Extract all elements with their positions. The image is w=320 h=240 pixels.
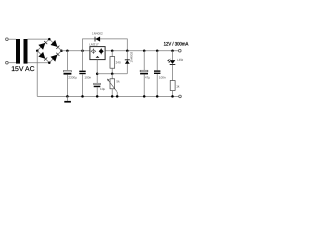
wire R2 bottom: [172, 91, 174, 97]
wire C4 top: [143, 51, 145, 70]
svg-text:LED: LED: [177, 58, 184, 62]
node R2 bottom: [171, 95, 174, 98]
svg-text:240: 240: [116, 61, 121, 65]
transformer TR1 primary bar: [16, 39, 20, 64]
node C2 bottom: [81, 95, 84, 98]
LED D7: [170, 60, 176, 65]
wire DC minus down: [36, 51, 38, 97]
node adjust / pot: [111, 72, 114, 75]
wire LED top: [172, 51, 174, 61]
input arrow (hollow): [91, 50, 96, 53]
wire pot top: [111, 74, 113, 79]
terminal output minus: [179, 95, 182, 98]
node C4 top: [143, 49, 146, 52]
wire C5 top: [156, 51, 158, 71]
transformer TR1 secondary bar: [24, 39, 28, 64]
node C1 top: [66, 49, 69, 52]
node C2 top: [81, 49, 84, 52]
diode D6 1N4002 (adjust): [125, 59, 130, 63]
wire main positive rail: [62, 50, 90, 52]
node D6 top: [126, 49, 129, 52]
capacitor C5 100n: [154, 70, 160, 71]
resistor R2 1k: [170, 81, 175, 91]
bridge rectifier diamond wires: [37, 39, 61, 63]
diode D5 1N4002 (over regulator): [95, 37, 101, 42]
wire C1 top: [66, 51, 68, 71]
ground: [66, 96, 68, 101]
wire C5 bottom: [156, 74, 158, 96]
node wiper bottom: [116, 95, 119, 98]
svg-text:47µ: 47µ: [145, 76, 150, 80]
node LED branch top: [171, 49, 174, 52]
svg-text:100n: 100n: [159, 75, 166, 79]
bridge diode D3 bottom-left: [38, 52, 47, 61]
svg-text:2200µ: 2200µ: [68, 76, 77, 80]
protection diode loop wire: [83, 39, 128, 51]
wire adjust pin down: [96, 60, 98, 84]
capacitor C1 2200u: [64, 70, 72, 72]
wire C2 bottom: [82, 74, 84, 96]
terminal output plus: [179, 49, 182, 52]
svg-text:15V AC: 15V AC: [11, 66, 34, 73]
capacitor C3 10u: [94, 83, 101, 85]
node C3 bottom: [96, 95, 99, 98]
wire C4 bottom: [143, 74, 145, 96]
gnd mark inside box: [96, 56, 100, 58]
node bridge top: [48, 38, 51, 41]
svg-text:1N4002: 1N4002: [129, 52, 133, 63]
wire secondary bottom to bridge: [28, 62, 50, 64]
node R1 top: [111, 49, 114, 52]
node pot bottom: [111, 95, 114, 98]
bridge diode D4 bottom-right: [51, 53, 60, 62]
svg-text:1N4002: 1N4002: [92, 32, 103, 36]
bridge diode D2 top-right: [51, 40, 60, 49]
wire wiper down: [116, 92, 118, 97]
svg-text:12V / 300mA: 12V / 300mA: [164, 42, 189, 48]
regulator U1 LM317: [90, 47, 105, 60]
wire R1 bottom: [111, 68, 113, 74]
svg-text:LM317: LM317: [89, 42, 99, 46]
bridge diode D1 top-left: [38, 41, 47, 50]
node C5 bottom: [156, 95, 159, 98]
svg-text:10µ: 10µ: [100, 87, 105, 91]
wire pot bottom: [111, 89, 113, 97]
potentiometer P1 5k: [110, 79, 115, 89]
wire R1 top: [111, 51, 113, 57]
wire C1 bottom: [66, 75, 68, 97]
svg-text:5k: 5k: [116, 80, 120, 84]
capacitor C2 100n: [79, 71, 85, 72]
node bridge bottom: [48, 61, 51, 64]
node C4 bottom: [143, 95, 146, 98]
terminal input top: [6, 38, 9, 41]
wire adjust horizontal: [97, 73, 127, 75]
wire: [8, 38, 16, 40]
terminal input bottom: [6, 61, 9, 64]
node C5 top: [156, 49, 159, 52]
wire C2 top: [82, 51, 84, 71]
wire bottom ground rail: [37, 95, 179, 97]
capacitor C4 47u: [140, 70, 148, 72]
node bridge right: [60, 49, 63, 52]
wire secondary top to bridge: [28, 38, 50, 40]
node adjust: [96, 72, 99, 75]
wire LED to R2: [172, 65, 174, 81]
node C1 bottom / ground: [66, 95, 69, 98]
LED arrows: [168, 59, 172, 62]
resistor R1 240: [110, 57, 115, 69]
wire C3 bottom: [96, 87, 98, 96]
wire D6 vertical: [126, 51, 128, 74]
node bridge left: [36, 49, 39, 52]
svg-text:100n: 100n: [84, 76, 91, 80]
svg-text:1k: 1k: [176, 84, 180, 88]
wire: [8, 62, 16, 64]
output arrow (filled): [99, 49, 104, 54]
